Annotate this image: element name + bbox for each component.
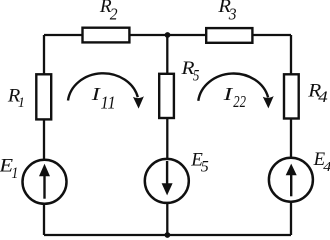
resistor R3 — [206, 28, 252, 43]
node top junction — [165, 32, 171, 38]
svg-text:1: 1 — [18, 95, 25, 111]
svg-text:3: 3 — [228, 5, 237, 24]
svg-text:I: I — [222, 84, 233, 104]
wire right — [290, 35, 292, 235]
source E4 circle — [269, 158, 313, 202]
resistor R5 — [159, 74, 174, 118]
svg-text:11: 11 — [101, 93, 116, 113]
source E5 arrow down — [162, 161, 173, 195]
wire middle branch — [166, 35, 168, 235]
wire top — [44, 34, 291, 36]
resistor R2 — [83, 28, 130, 43]
svg-text:4: 4 — [318, 89, 328, 106]
svg-text:5: 5 — [201, 159, 209, 176]
svg-text:22: 22 — [233, 92, 246, 111]
source E1 circle — [23, 160, 67, 204]
svg-text:1: 1 — [11, 165, 18, 182]
svg-text:4: 4 — [323, 160, 330, 175]
resistor R1 — [36, 74, 51, 119]
wire left — [43, 35, 45, 235]
source E5 circle — [145, 159, 189, 203]
mesh current arrow I22 — [198, 74, 273, 109]
wire bottom — [44, 234, 291, 236]
node bottom junction — [165, 232, 171, 238]
svg-text:5: 5 — [193, 67, 200, 84]
resistor R4 — [284, 74, 299, 118]
source E1 arrow up — [39, 164, 50, 199]
mesh current arrow I11 — [68, 73, 144, 108]
svg-text:2: 2 — [110, 4, 118, 23]
source E4 arrow up — [286, 164, 297, 197]
